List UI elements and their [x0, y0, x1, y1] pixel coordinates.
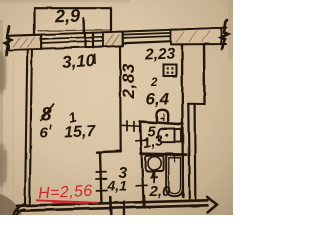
pier 2 fill — [103, 32, 123, 47]
window B jamb left — [122, 32, 124, 46]
left break zigzag — [5, 27, 12, 56]
pier 2 hatching — [106, 35, 119, 46]
top wall: outer face — [8, 28, 226, 36]
balcony door muntin 2 — [92, 33, 94, 48]
bottom band upper line — [17, 200, 208, 206]
left pier fill — [9, 35, 41, 50]
smudge left upper — [0, 56, 6, 90]
window B inner line 2 — [123, 36, 173, 38]
stove dots — [165, 67, 173, 137]
top edge shading — [0, 0, 130, 3]
top wall: inner face right segment — [172, 43, 226, 45]
balcony — [35, 8, 112, 35]
kitchen east wall inner line — [182, 45, 183, 197]
balcony door muntin 1 — [84, 33, 86, 48]
stove symbol — [164, 65, 177, 77]
svg-text:H=2,56: H=2,56 — [38, 183, 93, 203]
right break zigzag — [221, 20, 228, 49]
paper background — [0, 0, 233, 215]
hall wall tick 1 — [96, 178, 107, 180]
bathtub faucet mark — [173, 156, 175, 163]
right wall line mid — [188, 104, 189, 199]
kitchen/living divider wall — [119, 47, 122, 152]
red height note — [36, 183, 98, 204]
svg-text:15,7: 15,7 — [64, 123, 97, 142]
bottom band lower line — [17, 205, 208, 211]
kitchen east wall outer line — [203, 44, 206, 104]
window A jamb left — [40, 35, 42, 49]
svg-text:6,4: 6,4 — [146, 90, 170, 109]
WC dot — [165, 134, 168, 137]
WC cistern — [175, 129, 182, 142]
window B jamb right — [172, 30, 174, 45]
right wall line outer lower — [194, 104, 197, 199]
left pier hatching — [13, 38, 35, 49]
svg-text:2: 2 — [150, 77, 158, 89]
window B inner line 1 — [123, 33, 173, 35]
red underline — [36, 200, 98, 203]
hall top wall — [97, 151, 121, 152]
svg-text:3,10: 3,10 — [61, 51, 96, 72]
svg-text:2,0: 2,0 — [149, 183, 172, 200]
kitchen door opening line — [121, 125, 141, 126]
landing stub 3 — [143, 196, 146, 207]
top wall: inner face left segment — [8, 46, 123, 50]
living room west wall inner line — [30, 49, 32, 205]
right pier fill — [171, 28, 221, 44]
svg-text:2,83: 2,83 — [119, 63, 138, 100]
toilet west wall — [140, 122, 143, 202]
bath door tick — [136, 184, 147, 187]
hall wall tick 2 — [97, 189, 108, 191]
kitchen south wall — [140, 122, 183, 125]
landing stub 1 — [109, 197, 112, 215]
slash over 8 — [41, 104, 55, 122]
bathtub outer — [166, 155, 183, 196]
bath sink square — [146, 156, 164, 171]
band left curl — [14, 204, 26, 215]
window B sill line — [123, 41, 173, 43]
toilet door tick — [136, 139, 147, 142]
svg-text:2,9: 2,9 — [54, 6, 81, 27]
svg-text:4,1: 4,1 — [107, 177, 128, 193]
balcony inner parapet line — [38, 29, 110, 32]
svg-text:2,23: 2,23 — [144, 45, 176, 63]
kitchen door tick 1 — [126, 121, 128, 131]
window A inner line 2 — [41, 41, 104, 43]
hall west wall — [100, 152, 102, 204]
kitchen sink symbol — [157, 110, 169, 123]
bathtub inner — [169, 158, 181, 194]
right pier hatching — [176, 31, 210, 43]
tick after 3,10 — [94, 54, 96, 65]
bottom-left corner shadow — [0, 194, 22, 215]
kitchen door end tick — [139, 122, 141, 132]
hall wall tick 0 — [96, 171, 106, 173]
balcony dim tick — [83, 18, 85, 34]
svg-text:6: 6 — [40, 125, 49, 142]
bath sink drain (4-like) — [152, 171, 158, 183]
left page edge shading — [0, 20, 3, 215]
band right arrow — [208, 197, 218, 213]
bath sink circle — [148, 157, 161, 170]
smudge left middle — [0, 150, 7, 182]
kitchen sink inner mark — [161, 115, 164, 121]
window A inner line 1 — [41, 37, 104, 39]
wall step — [188, 103, 205, 105]
toilet/bath divider — [141, 152, 186, 156]
kitchen door tick 2 — [133, 122, 135, 132]
WC bowl — [158, 128, 174, 142]
tick after 6 — [50, 125, 51, 130]
living room west wall outer line — [25, 50, 27, 206]
right thick wall fill — [183, 46, 203, 103]
landing stub 2 — [123, 202, 126, 216]
